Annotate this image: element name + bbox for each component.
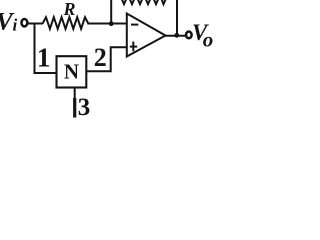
svg-text:3: 3 [78, 94, 91, 120]
op-amp inverting input marker (minus) [131, 24, 138, 26]
wire resistor to op-amp inverting input [87, 23, 127, 25]
wire pin 2 to op-amp non-inverting input [87, 47, 128, 71]
svg-text:N: N [64, 60, 79, 84]
svg-text:i: i [13, 16, 18, 35]
svg-text:2: 2 [94, 43, 107, 72]
wire feedback right vertical [176, 0, 178, 36]
terminal Vi [21, 19, 27, 26]
op-amp non-inverting input marker (plus) [130, 46, 137, 48]
resistor feedback (top, cut off by image edge) [120, 0, 168, 4]
svg-text:1: 1 [37, 42, 51, 72]
terminal Vo [186, 32, 192, 39]
junction dot inverting input node [109, 21, 114, 26]
wire feedback left vertical [110, 0, 112, 24]
two-port network N box [57, 56, 87, 87]
svg-text:o: o [203, 27, 214, 51]
wire pin 3 (continues off bottom edge) [74, 88, 76, 100]
resistor R [43, 17, 89, 29]
wire pin 1 to input node [35, 24, 57, 74]
wire Vi terminal to resistor R [28, 23, 43, 25]
wire op-amp output [166, 35, 186, 37]
op-amp U1 [127, 14, 166, 57]
svg-text:R: R [63, 0, 76, 19]
junction dot output node [174, 33, 179, 38]
